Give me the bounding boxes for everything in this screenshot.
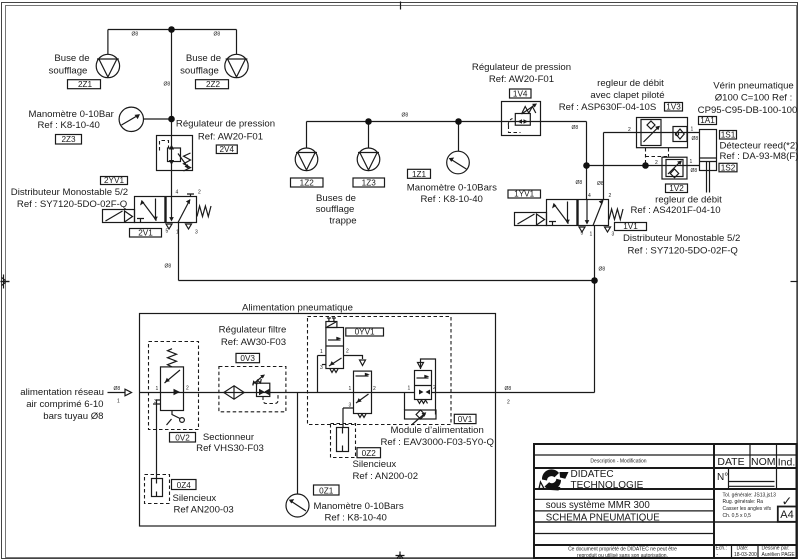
svg-text:1V1: 1V1 [623, 222, 638, 231]
svg-text:1S1: 1S1 [721, 131, 736, 140]
svg-text:Tol. générale: JS13,js13: Tol. générale: JS13,js13 [723, 493, 777, 499]
svg-text:1Z3: 1Z3 [362, 179, 377, 188]
svg-text:Ø8: Ø8 [505, 386, 512, 392]
svg-text:DIDATEC: DIDATEC [571, 469, 614, 480]
svg-text:Régulateur filtre: Régulateur filtre [219, 325, 287, 336]
svg-text:alimentation réseau: alimentation réseau [20, 387, 104, 398]
svg-text:Distributeur Monostable 5/2: Distributeur Monostable 5/2 [623, 233, 740, 244]
svg-text:3: 3 [195, 230, 198, 236]
svg-text:Détecteur reed(*2): Détecteur reed(*2) [720, 141, 799, 152]
svg-text:Ref : K8-10-40: Ref : K8-10-40 [421, 194, 483, 205]
svg-text:reproduit ou utilisé sans son: reproduit ou utilisé sans son autorisati… [577, 553, 668, 559]
svg-text:1S2: 1S2 [721, 164, 736, 173]
svg-text:Ref : AS4201F-04-10: Ref : AS4201F-04-10 [631, 205, 721, 216]
svg-text:soufflage: soufflage [49, 66, 88, 77]
svg-text:Ref: AW30-F03: Ref: AW30-F03 [221, 337, 286, 348]
svg-text:regleur de débit: regleur de débit [655, 195, 722, 206]
svg-text:Ø8: Ø8 [572, 125, 579, 131]
svg-text:1Z2: 1Z2 [300, 179, 315, 188]
svg-text:Vérin pneumatique: Vérin pneumatique [713, 80, 794, 91]
svg-text:trappe: trappe [329, 216, 356, 227]
svg-text:Dessiné par:: Dessiné par: [762, 546, 790, 552]
svg-text:avec clapet piloté: avec clapet piloté [590, 90, 664, 101]
svg-text:1: 1 [691, 127, 694, 133]
svg-text:Alimentation pneumatique: Alimentation pneumatique [242, 303, 353, 314]
svg-text:Ø8: Ø8 [214, 32, 221, 38]
svg-text:Buses de: Buses de [316, 193, 356, 204]
svg-text:2Z2: 2Z2 [206, 80, 221, 89]
svg-text:Manomètre 0-10Bar: Manomètre 0-10Bar [29, 109, 115, 120]
svg-text:Silencieux: Silencieux [353, 459, 397, 470]
svg-text:bars tuyau Ø8: bars tuyau Ø8 [43, 411, 103, 422]
svg-text:0V1: 0V1 [458, 415, 473, 424]
svg-text:Ø8: Ø8 [132, 32, 139, 38]
svg-text:Ref : AN200-02: Ref : AN200-02 [353, 471, 419, 482]
svg-text:Manomètre 0-10Bars: Manomètre 0-10Bars [314, 501, 404, 512]
svg-text:2: 2 [433, 385, 436, 391]
svg-text:Ref: AW20-F01: Ref: AW20-F01 [198, 132, 263, 143]
svg-text:Ø8: Ø8 [692, 136, 699, 142]
svg-text:Silencieux: Silencieux [173, 493, 217, 504]
svg-text:Aurélien PAGE: Aurélien PAGE [762, 552, 796, 558]
svg-text:Description - Modification: Description - Modification [590, 459, 646, 465]
svg-text:air comprimé 6-10: air comprimé 6-10 [26, 399, 103, 410]
svg-text:2Z1: 2Z1 [78, 80, 93, 89]
svg-text:Ø8: Ø8 [691, 168, 698, 174]
svg-text:regleur de débit: regleur de débit [597, 78, 664, 89]
svg-text:Ø100 C=100 Ref :: Ø100 C=100 Ref : [715, 93, 793, 104]
svg-text:Buse de: Buse de [54, 53, 89, 64]
svg-text:3: 3 [612, 232, 615, 238]
svg-text:2: 2 [346, 349, 349, 355]
svg-text:Module d’alimentation: Module d’alimentation [391, 425, 484, 436]
svg-text:Ø8: Ø8 [114, 386, 121, 392]
svg-text:Ref : ASP630F-04-10S: Ref : ASP630F-04-10S [559, 102, 657, 113]
svg-text:soufflage: soufflage [316, 204, 355, 215]
svg-text:1A1: 1A1 [700, 116, 715, 125]
svg-text:A4: A4 [780, 509, 793, 521]
svg-text:Ce document propriété de DIDAT: Ce document propriété de DIDATEC ne peut… [568, 547, 677, 553]
svg-text:0Z4: 0Z4 [177, 481, 192, 490]
svg-text:Ref : SY7120-5DO-02F-Q: Ref : SY7120-5DO-02F-Q [628, 246, 738, 257]
svg-text:2: 2 [373, 386, 376, 392]
svg-text:1: 1 [349, 386, 352, 392]
svg-text:Ref : K8-10-40: Ref : K8-10-40 [38, 120, 100, 131]
svg-text:Régulateur de pression: Régulateur de pression [472, 62, 571, 73]
svg-text:4: 4 [176, 190, 179, 196]
svg-text:0V3: 0V3 [240, 354, 255, 363]
svg-text:2: 2 [609, 193, 612, 199]
svg-text:1Z1: 1Z1 [412, 170, 427, 179]
svg-text:2V1: 2V1 [138, 229, 153, 238]
svg-text:Buse de: Buse de [186, 53, 221, 64]
svg-text:2: 2 [198, 190, 201, 196]
svg-text:Sectionneur: Sectionneur [203, 432, 255, 443]
svg-text:0V2: 0V2 [175, 433, 190, 442]
svg-text:DATE: DATE [717, 456, 744, 468]
svg-text:2: 2 [186, 386, 189, 392]
svg-text:Ind.: Ind. [778, 456, 796, 468]
svg-text:2: 2 [628, 127, 631, 133]
svg-text:Régulateur de pression: Régulateur de pression [176, 119, 275, 130]
svg-text:Distributeur Monostable 5/2: Distributeur Monostable 5/2 [11, 187, 128, 198]
svg-text:1: 1 [176, 230, 179, 236]
svg-text:3: 3 [320, 365, 323, 371]
svg-text:soufflage: soufflage [180, 66, 219, 77]
svg-text:2YV1: 2YV1 [104, 176, 124, 185]
svg-text:Ø8: Ø8 [164, 82, 171, 88]
svg-text:Ech.:: Ech.: [716, 546, 727, 552]
svg-text:✓: ✓ [782, 494, 793, 509]
svg-text:N°: N° [717, 472, 728, 483]
svg-text:Rug. générale: Ra: Rug. générale: Ra [723, 499, 764, 505]
svg-text:1V3: 1V3 [666, 103, 681, 112]
svg-text:Ø8: Ø8 [576, 180, 583, 186]
svg-text:18-03-200: 18-03-200 [734, 552, 757, 558]
svg-text:0Z2: 0Z2 [362, 449, 377, 458]
svg-text:2Z3: 2Z3 [61, 135, 76, 144]
svg-text:4: 4 [588, 193, 591, 199]
svg-text:5: 5 [166, 229, 169, 235]
svg-text:Manomètre 0-10Bars: Manomètre 0-10Bars [407, 183, 497, 194]
svg-text:Ref : K8-10-40: Ref : K8-10-40 [325, 513, 387, 524]
svg-text:2V4: 2V4 [220, 145, 235, 154]
svg-text:Ø8: Ø8 [599, 267, 606, 273]
svg-text:2: 2 [507, 400, 510, 406]
svg-text:Ref : DA-93-M8(F): Ref : DA-93-M8(F) [720, 151, 799, 162]
svg-text:3: 3 [349, 403, 352, 409]
svg-text:1: 1 [408, 386, 411, 392]
svg-text:Date:: Date: [737, 546, 749, 552]
svg-text:Casser les angles vifs: Casser les angles vifs [723, 506, 772, 512]
svg-text:SCHEMA PNEUMATIQUE: SCHEMA PNEUMATIQUE [546, 512, 660, 523]
svg-text:5: 5 [581, 231, 584, 237]
svg-text:1V2: 1V2 [669, 184, 684, 193]
svg-text:Ref : EAV3000-F03-5Y0-Q: Ref : EAV3000-F03-5Y0-Q [381, 437, 494, 448]
svg-text:1V4: 1V4 [513, 90, 528, 99]
svg-text:Ref : SY7120-5DO-02F-Q: Ref : SY7120-5DO-02F-Q [17, 199, 127, 210]
svg-text:1: 1 [690, 159, 693, 165]
svg-text:Ø8: Ø8 [165, 264, 172, 270]
svg-text:0YV1: 0YV1 [355, 328, 375, 337]
svg-text:Ref VHS30-F03: Ref VHS30-F03 [196, 443, 264, 454]
svg-text:Ref: AW20-F01: Ref: AW20-F01 [489, 74, 554, 85]
svg-text:1: 1 [320, 349, 323, 355]
svg-text:1YV1: 1YV1 [514, 190, 534, 199]
svg-text:NOM: NOM [751, 456, 776, 468]
svg-text:TECHNOLOGIE: TECHNOLOGIE [571, 480, 644, 491]
svg-text:1: 1 [156, 386, 159, 392]
svg-text:CP95-C95-DB-100-100: CP95-C95-DB-100-100 [698, 105, 798, 116]
svg-text:0Z1: 0Z1 [319, 486, 334, 495]
svg-text:2: 2 [655, 160, 658, 166]
svg-text:Ø8: Ø8 [402, 113, 409, 119]
svg-text:Ø8: Ø8 [597, 181, 604, 187]
svg-text:Ch. 0,5 x 0,5: Ch. 0,5 x 0,5 [723, 513, 752, 519]
svg-text:sous système MMR 300: sous système MMR 300 [546, 500, 651, 511]
svg-text:3: 3 [154, 399, 157, 405]
svg-text:1: 1 [590, 232, 593, 238]
svg-text:Ref AN200-03: Ref AN200-03 [174, 505, 234, 516]
svg-text:1: 1 [117, 399, 120, 405]
